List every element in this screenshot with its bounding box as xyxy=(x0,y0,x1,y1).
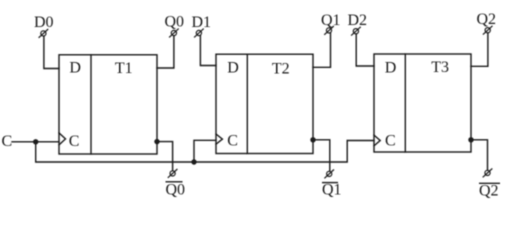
terminal pin Q0 xyxy=(169,29,179,38)
svg-text:T2: T2 xyxy=(272,60,290,77)
terminal pin Q1 xyxy=(324,26,334,35)
clock edge-trigger symbol T2 xyxy=(216,134,222,144)
svg-text:T1: T1 xyxy=(115,60,133,77)
junction node T2 Qbar xyxy=(310,137,315,142)
wire D0 terminal to T1 D input xyxy=(44,36,59,68)
label Q0bar xyxy=(166,182,186,199)
terminal pin D0 xyxy=(39,29,49,38)
wire D2 terminal to T3 D input xyxy=(356,34,374,66)
wire T3 Q output to Q2 terminal xyxy=(471,33,488,66)
flip-flop T2 box xyxy=(216,54,313,153)
wire clock branch to T2 clock xyxy=(194,140,216,162)
wire T2 Qbar output to Q1bar terminal xyxy=(313,140,330,171)
clock edge-trigger symbol T1 xyxy=(59,133,66,145)
svg-text:Q2: Q2 xyxy=(477,11,497,28)
svg-text:D: D xyxy=(385,60,397,77)
svg-text:D2: D2 xyxy=(348,12,368,29)
label Q2bar xyxy=(479,182,500,199)
terminal pin Q2 xyxy=(483,26,493,35)
terminal pin Q0bar xyxy=(168,169,178,178)
clock edge-trigger symbol T3 xyxy=(374,135,380,146)
svg-text:T3: T3 xyxy=(431,59,449,76)
svg-text:Q0: Q0 xyxy=(165,14,185,31)
wire T1 Q output to Q0 terminal xyxy=(157,36,174,68)
terminal pin Q2bar xyxy=(483,169,493,178)
flip-flop T3 box xyxy=(374,54,471,152)
junction node on C wire xyxy=(33,139,38,144)
svg-text:Q1: Q1 xyxy=(322,182,342,199)
wire clock rail down and along bottom to T3 clock xyxy=(36,141,374,163)
svg-text:D0: D0 xyxy=(34,14,54,31)
svg-text:D: D xyxy=(69,60,81,77)
svg-text:Q0: Q0 xyxy=(166,182,186,199)
svg-text:Q1: Q1 xyxy=(321,12,341,29)
wire T1 Qbar output to Q0bar terminal xyxy=(157,142,173,171)
junction node T3 Qbar xyxy=(468,137,473,142)
junction node clock rail to T2 xyxy=(191,159,196,164)
svg-text:C: C xyxy=(227,132,238,149)
terminal pin D1 xyxy=(194,29,204,38)
terminal pin D2 xyxy=(351,27,361,36)
label Q1bar xyxy=(322,182,342,199)
wire D1 terminal to T2 D input xyxy=(200,36,216,66)
wire T2 Q output to Q1 terminal xyxy=(313,33,331,67)
wire T3 Qbar output to Q2bar terminal xyxy=(471,140,488,170)
svg-text:D: D xyxy=(227,60,239,77)
svg-text:C: C xyxy=(385,133,396,150)
svg-text:Q2: Q2 xyxy=(479,182,499,199)
junction node T1 Qbar xyxy=(154,139,159,144)
svg-text:C: C xyxy=(69,133,80,150)
svg-text:D1: D1 xyxy=(192,14,212,31)
terminal pin Q1bar xyxy=(324,170,334,179)
flip-flop T1 box xyxy=(59,55,157,154)
wire C input to T1 clock xyxy=(12,141,59,143)
svg-text:C: C xyxy=(2,133,13,150)
